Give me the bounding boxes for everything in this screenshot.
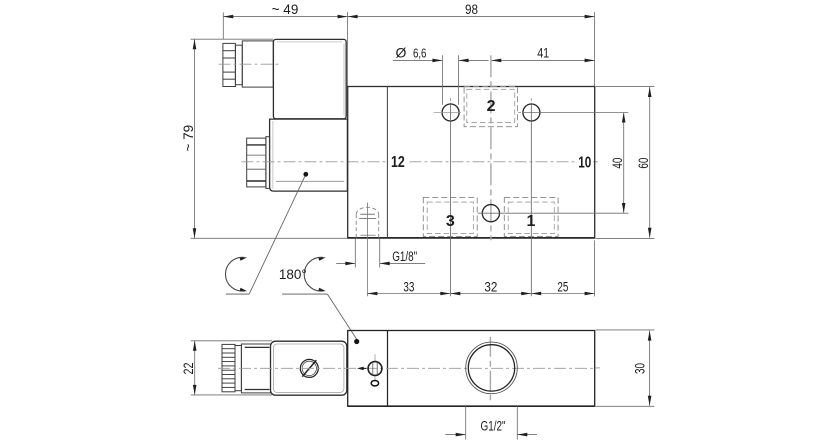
bottom view: DIN plug body xyxy=(241,344,270,393)
mounting hole right xyxy=(518,98,628,296)
side view: ribbed nut xyxy=(247,137,270,189)
svg-text:10: 10 xyxy=(578,154,591,171)
G1/2 dimension xyxy=(445,406,537,439)
dimension ~49 xyxy=(223,2,347,18)
svg-text:32: 32 xyxy=(484,280,497,295)
dimension ~79 xyxy=(181,39,196,238)
svg-text:98: 98 xyxy=(465,2,478,17)
svg-text:30: 30 xyxy=(632,363,647,374)
svg-text:33: 33 xyxy=(403,280,414,295)
override position mark 0 xyxy=(371,381,378,386)
rotation tick left xyxy=(226,293,249,295)
bottom view: solenoid coil xyxy=(271,341,347,395)
dimension 60 xyxy=(596,87,655,239)
bottom view: gland adapter xyxy=(235,346,241,391)
side view: solenoid coil xyxy=(270,119,348,191)
centerline stub right of body xyxy=(595,367,600,369)
diameter 6,6 label xyxy=(396,45,427,61)
svg-text:G1/2": G1/2" xyxy=(481,419,506,434)
leader dot on coil xyxy=(303,172,308,177)
svg-text:~ 79: ~ 79 xyxy=(181,125,196,152)
bottom view: manual override xyxy=(368,362,382,376)
svg-text:2: 2 xyxy=(487,98,496,115)
extension line right of 98 xyxy=(594,12,596,86)
svg-text:41: 41 xyxy=(537,46,549,61)
main horizontal centerline xyxy=(242,161,598,163)
dimension 22 xyxy=(181,341,272,395)
mounting hole bottom xyxy=(478,205,629,222)
override position mark 1 xyxy=(357,367,366,371)
port 2 dashed square xyxy=(464,87,517,127)
mounting hole left xyxy=(434,98,461,296)
svg-text:~ 49: ~ 49 xyxy=(272,2,299,17)
extension line bottom of 79 xyxy=(191,237,348,239)
svg-text:25: 25 xyxy=(557,280,568,295)
svg-text:G1/8": G1/8" xyxy=(392,249,417,264)
dimension 41 xyxy=(491,46,594,63)
svg-text:180°: 180° xyxy=(279,267,307,282)
top view: flange division line xyxy=(386,87,388,238)
svg-text:1: 1 xyxy=(527,213,536,230)
bottom dimension chain 33/32/25 xyxy=(367,240,594,296)
svg-text:40: 40 xyxy=(610,158,625,169)
svg-text:6,6: 6,6 xyxy=(413,47,427,61)
port 3 dashed square xyxy=(423,197,477,236)
bottom view: override slot axis xyxy=(374,354,376,362)
dimension 30 xyxy=(596,330,655,406)
side view: gland adapter xyxy=(235,45,242,84)
svg-text:12: 12 xyxy=(391,154,405,171)
rotation arc right xyxy=(304,256,326,293)
bottom view: centerline xyxy=(218,367,594,369)
bottom view: coil screw xyxy=(300,359,318,377)
rotation tick right xyxy=(282,293,327,295)
top view: valve body xyxy=(348,87,595,238)
svg-text:Ø: Ø xyxy=(396,45,407,61)
G1/8 hidden port xyxy=(356,203,379,297)
extension line left of 49 xyxy=(222,12,224,39)
side view: DIN plug body xyxy=(242,41,273,87)
side view: cable gland xyxy=(223,43,236,86)
svg-text:60: 60 xyxy=(636,158,651,169)
port 1 dashed square xyxy=(504,197,558,236)
diameter 6,6 leader arrows xyxy=(393,55,489,105)
rotation arc left xyxy=(225,256,247,293)
svg-text:3: 3 xyxy=(446,213,455,230)
extension line shared 49/98 xyxy=(347,12,349,86)
bottom view: valve body xyxy=(348,331,595,407)
extension line top of 79 xyxy=(191,38,274,40)
bottom view: port vertical axis xyxy=(489,337,491,400)
bottom view: cable gland xyxy=(222,344,235,391)
G1/2 port circles xyxy=(466,342,518,394)
leader line to rotation note xyxy=(249,176,305,294)
side view: plug centerline xyxy=(219,63,279,65)
leader to bottom view xyxy=(327,294,358,341)
dimension 98 xyxy=(348,2,595,18)
side view: connector housing xyxy=(273,39,346,118)
dimension 40 xyxy=(610,113,626,214)
svg-text:22: 22 xyxy=(181,363,196,375)
leader dot on bottom view xyxy=(354,339,359,344)
port 2 vertical axis xyxy=(490,55,492,240)
G1/8 dimension xyxy=(336,239,425,268)
